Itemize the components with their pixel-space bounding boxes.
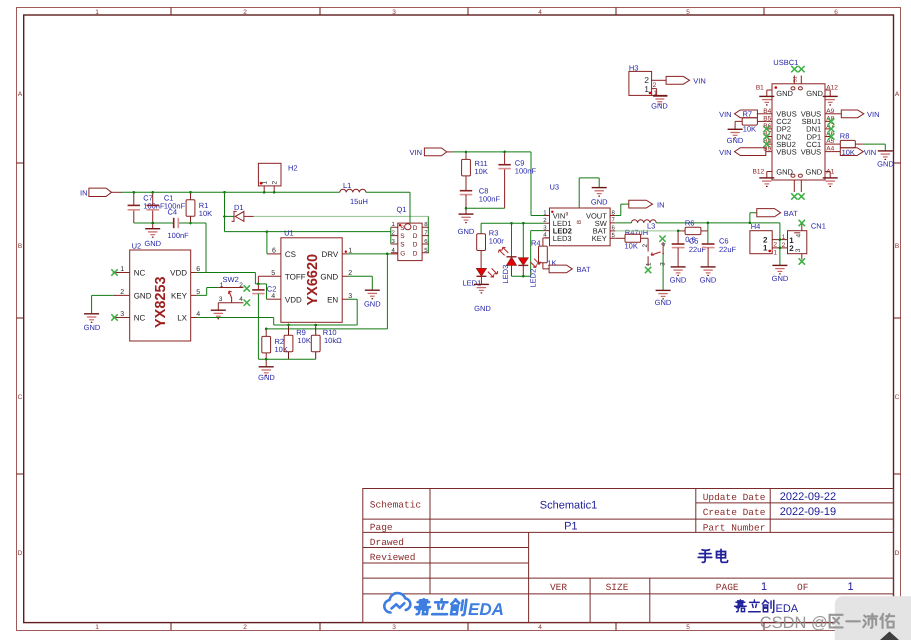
svg-text:1: 1 (848, 581, 854, 593)
ground R7 (727, 129, 744, 145)
wire C2 bottom to gnd rail (257, 294, 259, 360)
port flag VIN (mid) (409, 148, 446, 157)
usb shield pins top (794, 76, 801, 84)
svg-text:2022-09-22: 2022-09-22 (780, 491, 836, 503)
resistor R3 (477, 229, 505, 269)
connector USBC1 (753, 58, 839, 192)
svg-text:1: 1 (220, 282, 224, 289)
port flag VIN (B9) (719, 148, 766, 157)
resistor R11 (462, 152, 488, 191)
svg-text:SIZE: SIZE (606, 582, 629, 593)
svg-text:Update Date: Update Date (703, 492, 766, 503)
svg-text:Create Date: Create Date (703, 507, 766, 518)
ground H3 (651, 96, 668, 111)
svg-text:4: 4 (796, 234, 803, 238)
svg-text:10K: 10K (743, 125, 756, 134)
wire U1 CS up to source rail (267, 253, 276, 255)
svg-text:2: 2 (272, 181, 279, 185)
title block horizontal line under drawed (363, 547, 529, 549)
title block outline (363, 489, 894, 623)
svg-text:NC: NC (134, 269, 146, 278)
usb left data stubs (766, 114, 772, 152)
svg-text:D: D (18, 550, 23, 557)
svg-text:1: 1 (761, 581, 767, 593)
svg-text:B: B (576, 220, 583, 224)
no-connect x usb shield bottom (791, 193, 797, 199)
svg-text:BAT: BAT (577, 265, 591, 274)
svg-text:100r: 100r (489, 237, 505, 246)
title block vertical label divider (429, 489, 431, 594)
svg-text:U3: U3 (550, 183, 560, 192)
ground SW2 pin3 (211, 310, 226, 319)
svg-text:KEY: KEY (592, 234, 607, 243)
svg-text:KEY: KEY (171, 291, 188, 300)
ground U2 pin2 (84, 314, 101, 332)
svg-text:4: 4 (538, 624, 542, 631)
ground R8 (877, 151, 894, 169)
diode D1 schottky (232, 203, 244, 222)
svg-text:2: 2 (782, 242, 786, 249)
ground usb A1 (823, 178, 838, 187)
wire R6 right to SW net (707, 223, 709, 244)
title block vertical divider size/page (649, 578, 651, 622)
capacitor C4 (series) (168, 207, 190, 240)
usb pin A1 gnd (825, 172, 830, 178)
svg-text:VIN: VIN (719, 110, 732, 119)
svg-text:GND: GND (700, 276, 717, 285)
ground C6 (700, 267, 717, 285)
wire led pair columns (512, 223, 524, 257)
svg-text:EN: EN (327, 295, 338, 304)
title block horizontal line under reviewed (363, 562, 529, 564)
ic U3 driver (543, 183, 615, 246)
svg-text:SW2: SW2 (223, 275, 239, 284)
no-connect x SW2 pin2 (244, 285, 250, 291)
svg-text:NC: NC (134, 314, 146, 323)
wire VOUT to IN flag (615, 204, 629, 215)
svg-text:GND: GND (134, 291, 152, 300)
svg-text:VER: VER (550, 582, 567, 593)
wire R8 to gnd (863, 144, 886, 150)
wire SW net right (656, 222, 780, 224)
svg-text:22uF: 22uF (719, 245, 737, 254)
svg-text:P1: P1 (564, 520, 577, 532)
port flag VIN (A9) (831, 110, 879, 119)
svg-text:10K: 10K (842, 148, 855, 157)
svg-text:VIN: VIN (409, 148, 422, 157)
frame right ticks (894, 163, 901, 474)
wire U2 VDD net to C2 top (197, 273, 259, 284)
capacitor C8 (460, 186, 501, 208)
ground SW1 (655, 290, 672, 306)
svg-text:GND: GND (364, 300, 381, 309)
svg-text:4: 4 (660, 242, 667, 246)
title block vertical divider date labels (695, 489, 697, 533)
no-connect x SW2 pin4 (244, 300, 250, 306)
svg-text:VBUS: VBUS (776, 147, 796, 156)
svg-text:D: D (413, 225, 418, 232)
svg-text:G: G (400, 250, 405, 257)
port flag BAT (mid) (549, 265, 591, 274)
frame bottom ticks (171, 623, 764, 631)
capacitor C5 (672, 231, 707, 267)
svg-text:100nF: 100nF (515, 167, 537, 176)
ground C5 (670, 267, 687, 285)
svg-text:DRV: DRV (321, 250, 338, 259)
svg-text:GND: GND (670, 276, 687, 285)
svg-text:10K: 10K (475, 167, 488, 176)
svg-text:VDD: VDD (285, 295, 302, 304)
switch SW2 (218, 275, 243, 310)
svg-text:B: B (895, 243, 899, 250)
svg-text:1: 1 (95, 624, 99, 631)
value 手电 (698, 549, 727, 562)
no-connect x CN1 pin4 (799, 220, 805, 226)
svg-text:22uF: 22uF (689, 245, 707, 254)
svg-text:IN: IN (657, 200, 665, 209)
svg-text:C: C (895, 394, 900, 401)
title block horizontal line above ver row (363, 577, 894, 579)
wire BAT flag riser (750, 213, 757, 223)
ground LED1 (474, 284, 492, 313)
svg-text:1: 1 (782, 234, 786, 241)
svg-text:LED3: LED3 (501, 265, 510, 284)
svg-text:H4: H4 (751, 222, 761, 231)
resistor R1 (186, 192, 212, 223)
svg-text:3: 3 (392, 9, 396, 16)
ic U1 YX6620 (258, 228, 352, 322)
svg-text:GND: GND (320, 272, 338, 281)
ground usb B12 (759, 178, 774, 187)
wire U1 VDD pin4 jog (258, 284, 266, 299)
svg-text:C: C (18, 394, 23, 401)
svg-text:10kΩ: 10kΩ (324, 336, 342, 345)
wire L1 to Q1 drain top (409, 192, 411, 223)
svg-text:GND: GND (591, 198, 608, 207)
svg-text:D: D (413, 242, 418, 249)
usb pin B1 gnd (767, 90, 772, 96)
svg-text:2: 2 (120, 289, 124, 296)
svg-text:A12: A12 (826, 84, 838, 91)
svg-text:GND: GND (877, 159, 894, 168)
inductor L1 (340, 181, 368, 206)
svg-text:1: 1 (644, 84, 649, 94)
svg-text:5: 5 (686, 9, 690, 16)
svg-text:LED2: LED2 (529, 269, 538, 288)
ground H4 CN1 (772, 265, 789, 282)
title block horizontal line under page row (363, 531, 894, 533)
svg-text:CN1: CN1 (811, 221, 826, 230)
wire SW1 pin3 down (662, 254, 664, 291)
svg-text:USBC1: USBC1 (773, 58, 798, 67)
svg-text:1: 1 (120, 266, 124, 273)
svg-text:1: 1 (763, 244, 768, 253)
svg-text:YX6620: YX6620 (305, 254, 321, 306)
svg-text:2: 2 (243, 9, 247, 16)
svg-text:GND: GND (474, 304, 491, 313)
svg-text:GND: GND (806, 167, 823, 176)
svg-text:2: 2 (239, 282, 243, 289)
usb right pin labels (826, 108, 834, 153)
wire DRV net down (386, 254, 388, 329)
svg-text:LED3: LED3 (553, 234, 572, 243)
resistor R4 (531, 238, 556, 269)
svg-text:LX: LX (177, 314, 187, 323)
svg-text:10K: 10K (275, 345, 288, 354)
svg-text:OF: OF (797, 582, 809, 593)
no-connect x SW1 pin4 (659, 236, 665, 242)
svg-text:Reviewed: Reviewed (370, 552, 416, 563)
svg-text:10K: 10K (199, 209, 212, 218)
capacitor C6 (702, 237, 737, 267)
svg-text:D: D (895, 550, 900, 557)
capacitor C7 (128, 192, 165, 223)
wire D1 column (224, 192, 226, 231)
led LED2 (down) (518, 258, 540, 288)
no-connect x U2 pin1 (111, 269, 117, 275)
led LED1 (463, 268, 498, 287)
resistor R2 (262, 329, 288, 359)
svg-text:Part Number: Part Number (703, 523, 766, 534)
svg-text:Drawed: Drawed (370, 537, 404, 548)
svg-text:H2: H2 (288, 164, 298, 173)
title block horizontal line under schematic row (363, 518, 894, 520)
svg-text:BAT: BAT (784, 209, 798, 218)
svg-text:100nF: 100nF (168, 231, 190, 240)
svg-text:6: 6 (834, 9, 838, 16)
logo jlc eda cloud (384, 593, 410, 612)
usb vent circles (791, 87, 795, 90)
svg-text:C2: C2 (267, 285, 277, 294)
svg-text:EDA: EDA (468, 600, 504, 619)
svg-text:15uH: 15uH (350, 197, 368, 206)
wire U1 GND pin (348, 276, 373, 290)
svg-text:U2: U2 (132, 241, 142, 250)
no-connect x CN1 pin3 (799, 258, 805, 264)
svg-text:100nF: 100nF (479, 195, 501, 204)
capacitor C9 (498, 152, 536, 208)
title block vertical divider mid (528, 532, 530, 622)
svg-text:5: 5 (686, 624, 690, 631)
port flag IN (mid) (629, 200, 665, 209)
wire U2 gnd pin (92, 295, 113, 313)
svg-text:Q1: Q1 (397, 205, 407, 214)
svg-text:D: D (413, 250, 418, 257)
wire U1 TOFF jog down (257, 276, 259, 284)
usb left pin labels (763, 108, 771, 153)
wire U3 KEY to R5 (615, 237, 625, 239)
frame left ticks (17, 163, 24, 474)
usb right data stubs (825, 114, 831, 152)
svg-text:2: 2 (789, 244, 794, 253)
svg-text:B: B (18, 243, 22, 250)
frame row letters left (18, 91, 23, 557)
wire C8 C9 bottom (466, 207, 505, 209)
led LED3 (up) (499, 247, 517, 283)
switch SW1 (key) (642, 242, 667, 266)
svg-text:2: 2 (642, 244, 649, 248)
svg-text:5: 5 (271, 270, 275, 277)
ground U1 pin2 (364, 290, 381, 308)
svg-text:Schematic: Schematic (370, 500, 422, 511)
resistor R6 (678, 218, 708, 244)
ic U2 YX8253 (113, 241, 201, 341)
ground C8 C9 (458, 208, 475, 236)
svg-text:CSDN @: CSDN @ (760, 614, 828, 632)
svg-text:3: 3 (219, 296, 223, 303)
resistor R5 10K (625, 234, 649, 250)
svg-text:GND: GND (655, 298, 672, 307)
port flag IN (left input) (80, 188, 112, 197)
svg-text:GND: GND (776, 89, 793, 98)
svg-text:GND: GND (727, 136, 744, 145)
resistor R7 (735, 118, 766, 134)
svg-text:D1: D1 (234, 203, 244, 212)
resistor R9 (284, 325, 311, 359)
wire Q1 source pins vertical (390, 227, 392, 244)
svg-text:PAGE: PAGE (716, 582, 739, 593)
title block vertical divider date values (769, 489, 771, 533)
svg-text:S: S (400, 225, 405, 232)
no-connect x SW1 pin1 (645, 267, 651, 273)
svg-text:GND: GND (84, 323, 101, 332)
svg-text:GND: GND (458, 227, 475, 236)
port flag BAT (right) (757, 209, 798, 218)
svg-text:R8: R8 (840, 131, 850, 140)
svg-text:GND: GND (776, 167, 793, 176)
wire led2 net (512, 231, 545, 277)
wire U1 DRV to Q1 gate (348, 253, 391, 255)
wire sw net down to gnd (779, 223, 781, 265)
watermark background box (835, 596, 911, 640)
svg-text:4: 4 (239, 296, 243, 303)
watermark back-to-top arrow (880, 632, 899, 640)
wire resistor gnd rail (258, 358, 315, 360)
wire VIN rail (447, 151, 453, 153)
svg-text:Schematic1: Schematic1 (540, 500, 597, 512)
svg-text:10K: 10K (625, 241, 638, 250)
svg-text:S: S (400, 233, 405, 240)
svg-text:2022-09-19: 2022-09-19 (780, 506, 836, 518)
svg-text:2: 2 (243, 624, 247, 631)
logo jlc eda text (414, 599, 466, 615)
no-connect x usb B6 B7 B8 (763, 126, 769, 132)
ground under C1 (144, 229, 161, 248)
svg-text:10K: 10K (298, 336, 311, 345)
port flag VIN (B4) (719, 109, 766, 119)
connector H4 (750, 222, 780, 257)
svg-text:LED1: LED1 (463, 278, 482, 287)
capacitor C1 (147, 192, 186, 228)
usb pin B12 gnd (767, 172, 772, 178)
connector H3 (629, 63, 668, 97)
svg-text:1: 1 (773, 250, 777, 257)
svg-text:A1: A1 (826, 169, 834, 176)
usb inside pin names (776, 89, 823, 177)
svg-text:S1: S1 (793, 76, 799, 82)
wire U3 SW to L3 (615, 222, 631, 224)
frame column numbers bottom (95, 624, 838, 631)
svg-text:CS: CS (285, 250, 296, 259)
svg-text:D: D (413, 233, 418, 240)
title block horizontal line under update date (696, 502, 894, 504)
svg-text:B1: B1 (756, 84, 764, 91)
wire U1 EN (274, 299, 358, 325)
capacitor C2 (252, 284, 276, 294)
svg-text:R6: R6 (685, 218, 695, 227)
svg-text:B12: B12 (753, 169, 765, 176)
frame column numbers top (95, 9, 838, 16)
wire source rail y231.6 (225, 231, 391, 233)
svg-text:3: 3 (795, 248, 802, 252)
wire U2 KEY to SW2 (197, 288, 219, 296)
svg-text:R47uH: R47uH (625, 228, 648, 237)
wire junction dots (133, 151, 782, 361)
wire bottom rail (134, 223, 206, 273)
svg-text:L3: L3 (647, 222, 655, 231)
svg-text:VIN: VIN (719, 148, 732, 157)
wire drv pulldown rail y328.9 (266, 328, 387, 330)
port flag VIN (A4) (831, 148, 876, 157)
svg-text:L1: L1 (343, 181, 351, 190)
svg-text:2: 2 (773, 242, 777, 249)
no-connect x usb A8 A7 A6 (828, 118, 834, 124)
title block horizontal line below ver row (363, 593, 894, 595)
svg-text:IN: IN (80, 188, 88, 197)
svg-text:C4: C4 (168, 207, 178, 216)
wire IN rail (112, 191, 123, 193)
wire led1 net top (481, 223, 544, 234)
wire U2 LX net (197, 317, 274, 319)
frame top ticks (171, 8, 764, 16)
connector CN1 (780, 221, 826, 259)
value 嘉立创EDA navy (735, 600, 774, 613)
svg-text:GND: GND (144, 239, 161, 248)
svg-text:A: A (895, 91, 900, 98)
svg-text:GND: GND (772, 274, 789, 283)
svg-text:A: A (18, 91, 23, 98)
ground usb B1 (759, 96, 774, 105)
svg-text:VBUS: VBUS (801, 147, 821, 156)
svg-text:VDD: VDD (170, 269, 187, 278)
frame row letters right (895, 91, 900, 557)
svg-text:1: 1 (95, 9, 99, 16)
svg-text:4: 4 (538, 9, 542, 16)
svg-text:YX8253: YX8253 (153, 276, 169, 328)
resistor R8 (831, 131, 863, 147)
svg-text:VIN: VIN (864, 148, 877, 157)
no-connect x U2 pin3 (111, 314, 117, 320)
port flag VIN (H3) (666, 76, 706, 85)
svg-text:2: 2 (653, 82, 657, 89)
svg-text:S: S (400, 242, 405, 249)
svg-text:1: 1 (262, 181, 269, 185)
svg-text:3: 3 (392, 624, 396, 631)
svg-text:U1: U1 (284, 228, 294, 237)
svg-text:VIN: VIN (867, 110, 880, 119)
svg-text:R7: R7 (743, 109, 753, 118)
inductor L3 (625, 220, 656, 237)
svg-text:R4: R4 (531, 238, 541, 247)
ground resistor rail (258, 359, 275, 382)
svg-text:4: 4 (271, 293, 275, 300)
ground usb A12 (823, 96, 838, 105)
svg-text:9: 9 (566, 212, 569, 218)
usb shield pins bottom (794, 180, 801, 192)
svg-text:TOFF: TOFF (285, 272, 306, 281)
usb pin A12 gnd (825, 90, 830, 96)
wire U3 ep gnd (579, 178, 599, 208)
